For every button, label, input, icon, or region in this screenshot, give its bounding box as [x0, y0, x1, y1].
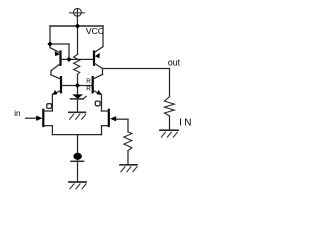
svg-text:R: R [86, 78, 91, 85]
svg-text:R: R [86, 86, 91, 93]
svg-text:out: out [168, 58, 181, 68]
svg-text:VCC: VCC [86, 26, 104, 36]
svg-text:in: in [14, 109, 20, 118]
svg-text:IN: IN [179, 118, 194, 129]
